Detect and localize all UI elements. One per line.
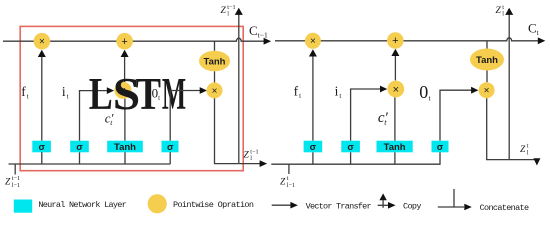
node Z l t top label <box>496 4 505 18</box>
wire C-line right <box>275 38 539 41</box>
pointwise multiply (output) <box>207 82 223 98</box>
svg-text:Neural Network Layer: Neural Network Layer <box>38 200 126 210</box>
svg-text:Pointwise Opration: Pointwise Opration <box>173 200 254 210</box>
svg-text:Vector Transfer: Vector Transfer <box>306 201 372 211</box>
wire sigma1 down <box>41 152 43 164</box>
svg-text:l−1: l−1 <box>287 182 295 189</box>
sigma box 2 <box>70 141 89 153</box>
svg-text:Z: Z <box>244 151 250 161</box>
legend concatenate symbol <box>438 206 464 208</box>
svg-text:σ: σ <box>76 142 83 153</box>
node Z l t right label <box>520 143 529 157</box>
svg-text:+: + <box>392 35 398 47</box>
tanh box <box>377 141 413 153</box>
sigma box 2 <box>341 141 360 153</box>
wire tanh to multiply <box>486 71 488 83</box>
wire C branch down <box>486 41 488 49</box>
wire i gate <box>351 89 381 141</box>
legend vector transfer arrow <box>272 204 291 206</box>
wire output down right <box>487 98 537 159</box>
node Z l-1 t-1 bottom label <box>5 175 20 189</box>
svg-text:×: × <box>39 37 45 48</box>
sigma box 3 <box>432 141 449 153</box>
svg-text:σ: σ <box>39 142 46 153</box>
wire tanhbox down <box>394 152 396 164</box>
pointwise multiply (input) <box>387 81 404 98</box>
svg-text:l−1: l−1 <box>12 182 20 189</box>
sigma box 1 <box>32 141 51 153</box>
svg-text:Tanh: Tanh <box>384 142 406 153</box>
wire sigma2 down <box>79 152 81 164</box>
pointwise multiply (input) <box>114 82 131 99</box>
svg-text:×: × <box>393 84 399 96</box>
svg-text:l: l <box>227 11 229 18</box>
LSTM title <box>89 68 186 119</box>
wire o gate <box>170 91 203 141</box>
wire C branch down <box>214 41 216 51</box>
wire f gate up <box>312 51 314 141</box>
red cell border <box>20 26 243 170</box>
wire candidate up <box>394 97 396 141</box>
legend copy symbol <box>378 204 389 206</box>
svg-text:M: M <box>162 68 186 118</box>
wire bottom input line with corner up to sigma3 <box>271 152 440 164</box>
sigma box 3 <box>162 141 179 153</box>
tanh ellipse <box>470 49 504 71</box>
svg-text:σ: σ <box>347 142 354 153</box>
pointwise multiply (forget) <box>34 33 51 50</box>
wire o gate <box>440 90 475 141</box>
wire sigma1 down <box>312 152 314 164</box>
wire hidden state up <box>238 13 240 164</box>
wire C t output arrow <box>538 37 546 44</box>
wire output down <box>215 98 239 163</box>
svg-text:Z: Z <box>280 177 286 187</box>
pointwise add <box>116 33 133 50</box>
wire candidate to multiply <box>124 99 126 141</box>
svg-text:Z: Z <box>520 145 526 155</box>
svg-text:Tanh: Tanh <box>114 142 136 153</box>
legend neural network layer box <box>14 200 32 213</box>
wire bottom input line <box>9 163 171 165</box>
svg-text:Z: Z <box>496 6 502 16</box>
pointwise multiply (forget) <box>305 33 321 49</box>
node Z l t-1 right label <box>244 148 259 162</box>
pointwise multiply (output) <box>479 82 495 98</box>
wire tanhbox down <box>124 152 126 164</box>
wire C-line left <box>3 38 265 41</box>
svg-text:σ: σ <box>437 142 444 153</box>
svg-text:×: × <box>212 86 218 97</box>
legend pointwise circle <box>148 194 167 213</box>
node Z l-1 t bottom label <box>280 175 295 189</box>
svg-text:Tanh: Tanh <box>204 56 226 67</box>
tanh box <box>107 141 143 153</box>
svg-text:Z: Z <box>5 177 11 187</box>
wire input stub <box>14 164 16 175</box>
wire multiply to add <box>124 51 126 82</box>
svg-text:Tanh: Tanh <box>476 55 498 66</box>
node Z l t-1 top label <box>221 4 236 18</box>
sigma box 1 <box>304 141 323 153</box>
svg-text:Copy: Copy <box>403 201 422 211</box>
svg-text:Concatenate: Concatenate <box>480 203 529 213</box>
wire sigma2 down <box>350 152 352 164</box>
svg-text:×: × <box>310 36 316 47</box>
wire f gate up <box>41 51 43 141</box>
svg-text:l: l <box>250 155 252 162</box>
wire output down arrow <box>533 158 540 165</box>
tanh ellipse <box>199 51 230 72</box>
wire input stub <box>288 164 290 174</box>
wire sigma3 down <box>169 152 171 164</box>
wire multiply to add <box>394 50 396 80</box>
svg-text:Z: Z <box>221 6 227 16</box>
svg-text:σ: σ <box>167 142 174 153</box>
svg-text:c′t: c′t <box>378 110 389 127</box>
wire output right arrow <box>239 163 260 165</box>
svg-text:×: × <box>484 86 490 97</box>
svg-text:l: l <box>502 11 504 18</box>
svg-text:+: + <box>121 36 127 48</box>
svg-text:σ: σ <box>310 142 317 153</box>
svg-text:c′t: c′t <box>105 110 114 127</box>
wire hidden state up <box>508 13 510 160</box>
pointwise add <box>387 32 404 49</box>
svg-text:l: l <box>527 149 529 156</box>
wire i gate <box>80 91 108 141</box>
wire tanh to multiply <box>214 71 216 83</box>
wire output arrow C t-1 <box>264 38 272 45</box>
